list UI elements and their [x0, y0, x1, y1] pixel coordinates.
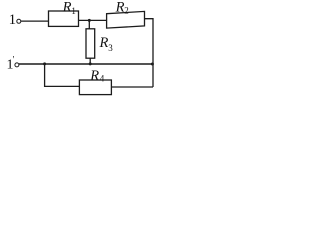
terminal 1' label: [7, 55, 15, 73]
svg-text:1: 1: [9, 12, 17, 28]
svg-text:': ': [13, 55, 15, 65]
label R3: [99, 35, 114, 53]
label R4: [89, 68, 105, 84]
wire R3 bottom stub: [89, 58, 91, 64]
resistor R1: [49, 11, 79, 26]
wire bottom rail 1' to right rail: [19, 63, 153, 65]
node A: [88, 19, 91, 22]
wire node A down to R3: [88, 20, 90, 28]
svg-text:R: R: [89, 68, 99, 84]
wire R1 to node A to R2: [79, 19, 107, 21]
node B: [89, 62, 92, 65]
resistor R3: [86, 29, 95, 58]
svg-text:R: R: [115, 0, 125, 15]
svg-text:R: R: [99, 35, 109, 51]
svg-text:4: 4: [100, 73, 105, 83]
node C: [43, 62, 46, 65]
terminal 1': [15, 63, 19, 67]
terminal 1: [17, 19, 21, 23]
terminal 1 label: [9, 12, 17, 28]
node D: [151, 63, 154, 66]
label R2: [115, 0, 129, 15]
svg-text:1: 1: [71, 6, 76, 16]
resistor R4: [79, 80, 111, 95]
wire R4 right to rail: [111, 86, 153, 88]
wire R2 to right rail down: [145, 19, 154, 87]
wire node C down and right to R4: [45, 64, 80, 87]
svg-text:2: 2: [124, 5, 129, 15]
wire terminal1 to R1: [21, 20, 49, 22]
svg-text:R: R: [62, 0, 72, 16]
label R1: [62, 0, 76, 16]
svg-text:3: 3: [108, 43, 113, 53]
resistor R2: [107, 11, 145, 28]
